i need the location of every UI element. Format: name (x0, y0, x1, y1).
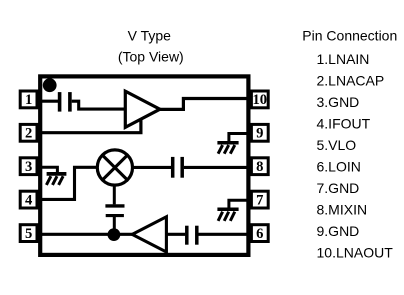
capacitor C1 (60, 92, 70, 112)
capacitor C3 (105, 206, 124, 216)
svg-text:3.GND: 3.GND (317, 94, 360, 110)
svg-text:4.IFOUT: 4.IFOUT (317, 116, 371, 132)
pin 8 box (251, 158, 268, 175)
svg-text:5: 5 (25, 226, 32, 242)
svg-text:6: 6 (256, 226, 263, 242)
pin 2 box (20, 124, 37, 141)
capacitor C4 (187, 226, 197, 245)
svg-text:4: 4 (25, 192, 33, 208)
ground at pin 9 (217, 143, 238, 154)
svg-text:7.GND: 7.GND (317, 180, 360, 196)
mixer U2 (97, 150, 132, 185)
svg-text:10.LNAOUT: 10.LNAOUT (317, 244, 394, 260)
wire C4 to pin 6 (198, 233, 250, 236)
op-amp A1 (LNA amplifier) (125, 91, 160, 127)
pin 4 box (20, 191, 37, 208)
pin 3 box (20, 158, 37, 175)
svg-text:3: 3 (25, 159, 32, 175)
wire C2 to pin 8 (184, 166, 250, 169)
ground at pin 7 (217, 209, 238, 221)
ground at pin 3 (46, 174, 66, 185)
svg-text:V Type: V Type (128, 27, 172, 43)
wire pin 2 to A1 bottom edge (36, 119, 141, 133)
pin 5 box (20, 225, 37, 242)
buffer amplifier A2 (132, 217, 166, 252)
pin 9 box (251, 124, 268, 141)
svg-text:8.MIXIN: 8.MIXIN (317, 202, 368, 218)
wire C1 to op-amp A1 input (72, 101, 127, 109)
svg-text:2.LNACAP: 2.LNACAP (317, 73, 385, 89)
pin 6 box (251, 225, 268, 242)
svg-text:(Top View): (Top View) (118, 49, 184, 65)
wire A1 output to pin 10 (160, 99, 250, 110)
svg-text:1.LNAIN: 1.LNAIN (317, 51, 370, 67)
wire pin 3 stub (36, 167, 57, 172)
svg-text:5.VLO: 5.VLO (317, 137, 357, 153)
svg-text:2: 2 (25, 126, 32, 142)
wire pin 5 to buffer A2 (36, 233, 134, 236)
svg-text:1: 1 (25, 92, 32, 108)
pin 10 box (251, 91, 268, 108)
pin 1 indicator dot (43, 78, 57, 92)
wire pin1 to C1 (36, 100, 59, 103)
wire C3 to junction on pin-5 line (113, 217, 116, 234)
svg-text:8: 8 (256, 159, 263, 175)
wire pin 4 to mixer (36, 167, 98, 199)
svg-text:6.LOIN: 6.LOIN (317, 159, 361, 175)
svg-text:10: 10 (253, 92, 268, 108)
svg-text:7: 7 (256, 192, 263, 208)
title "V Type (Top View)" (118, 27, 184, 64)
svg-text:Pin Connection: Pin Connection (302, 28, 397, 44)
svg-text:9.GND: 9.GND (317, 223, 360, 239)
IC body U1 (40, 76, 248, 255)
svg-text:9: 9 (256, 126, 263, 142)
wire pin 7 to ground (229, 200, 250, 208)
wire A2 to C4 (166, 233, 185, 236)
wire mixer to C3 (113, 185, 116, 205)
capacitor C2 (173, 157, 183, 178)
pin 7 box (251, 191, 268, 208)
wire pin 9 to ground (229, 134, 250, 142)
junction node dot (108, 228, 121, 241)
wire mixer to C2 (132, 166, 171, 169)
pin 1 box (20, 91, 37, 108)
